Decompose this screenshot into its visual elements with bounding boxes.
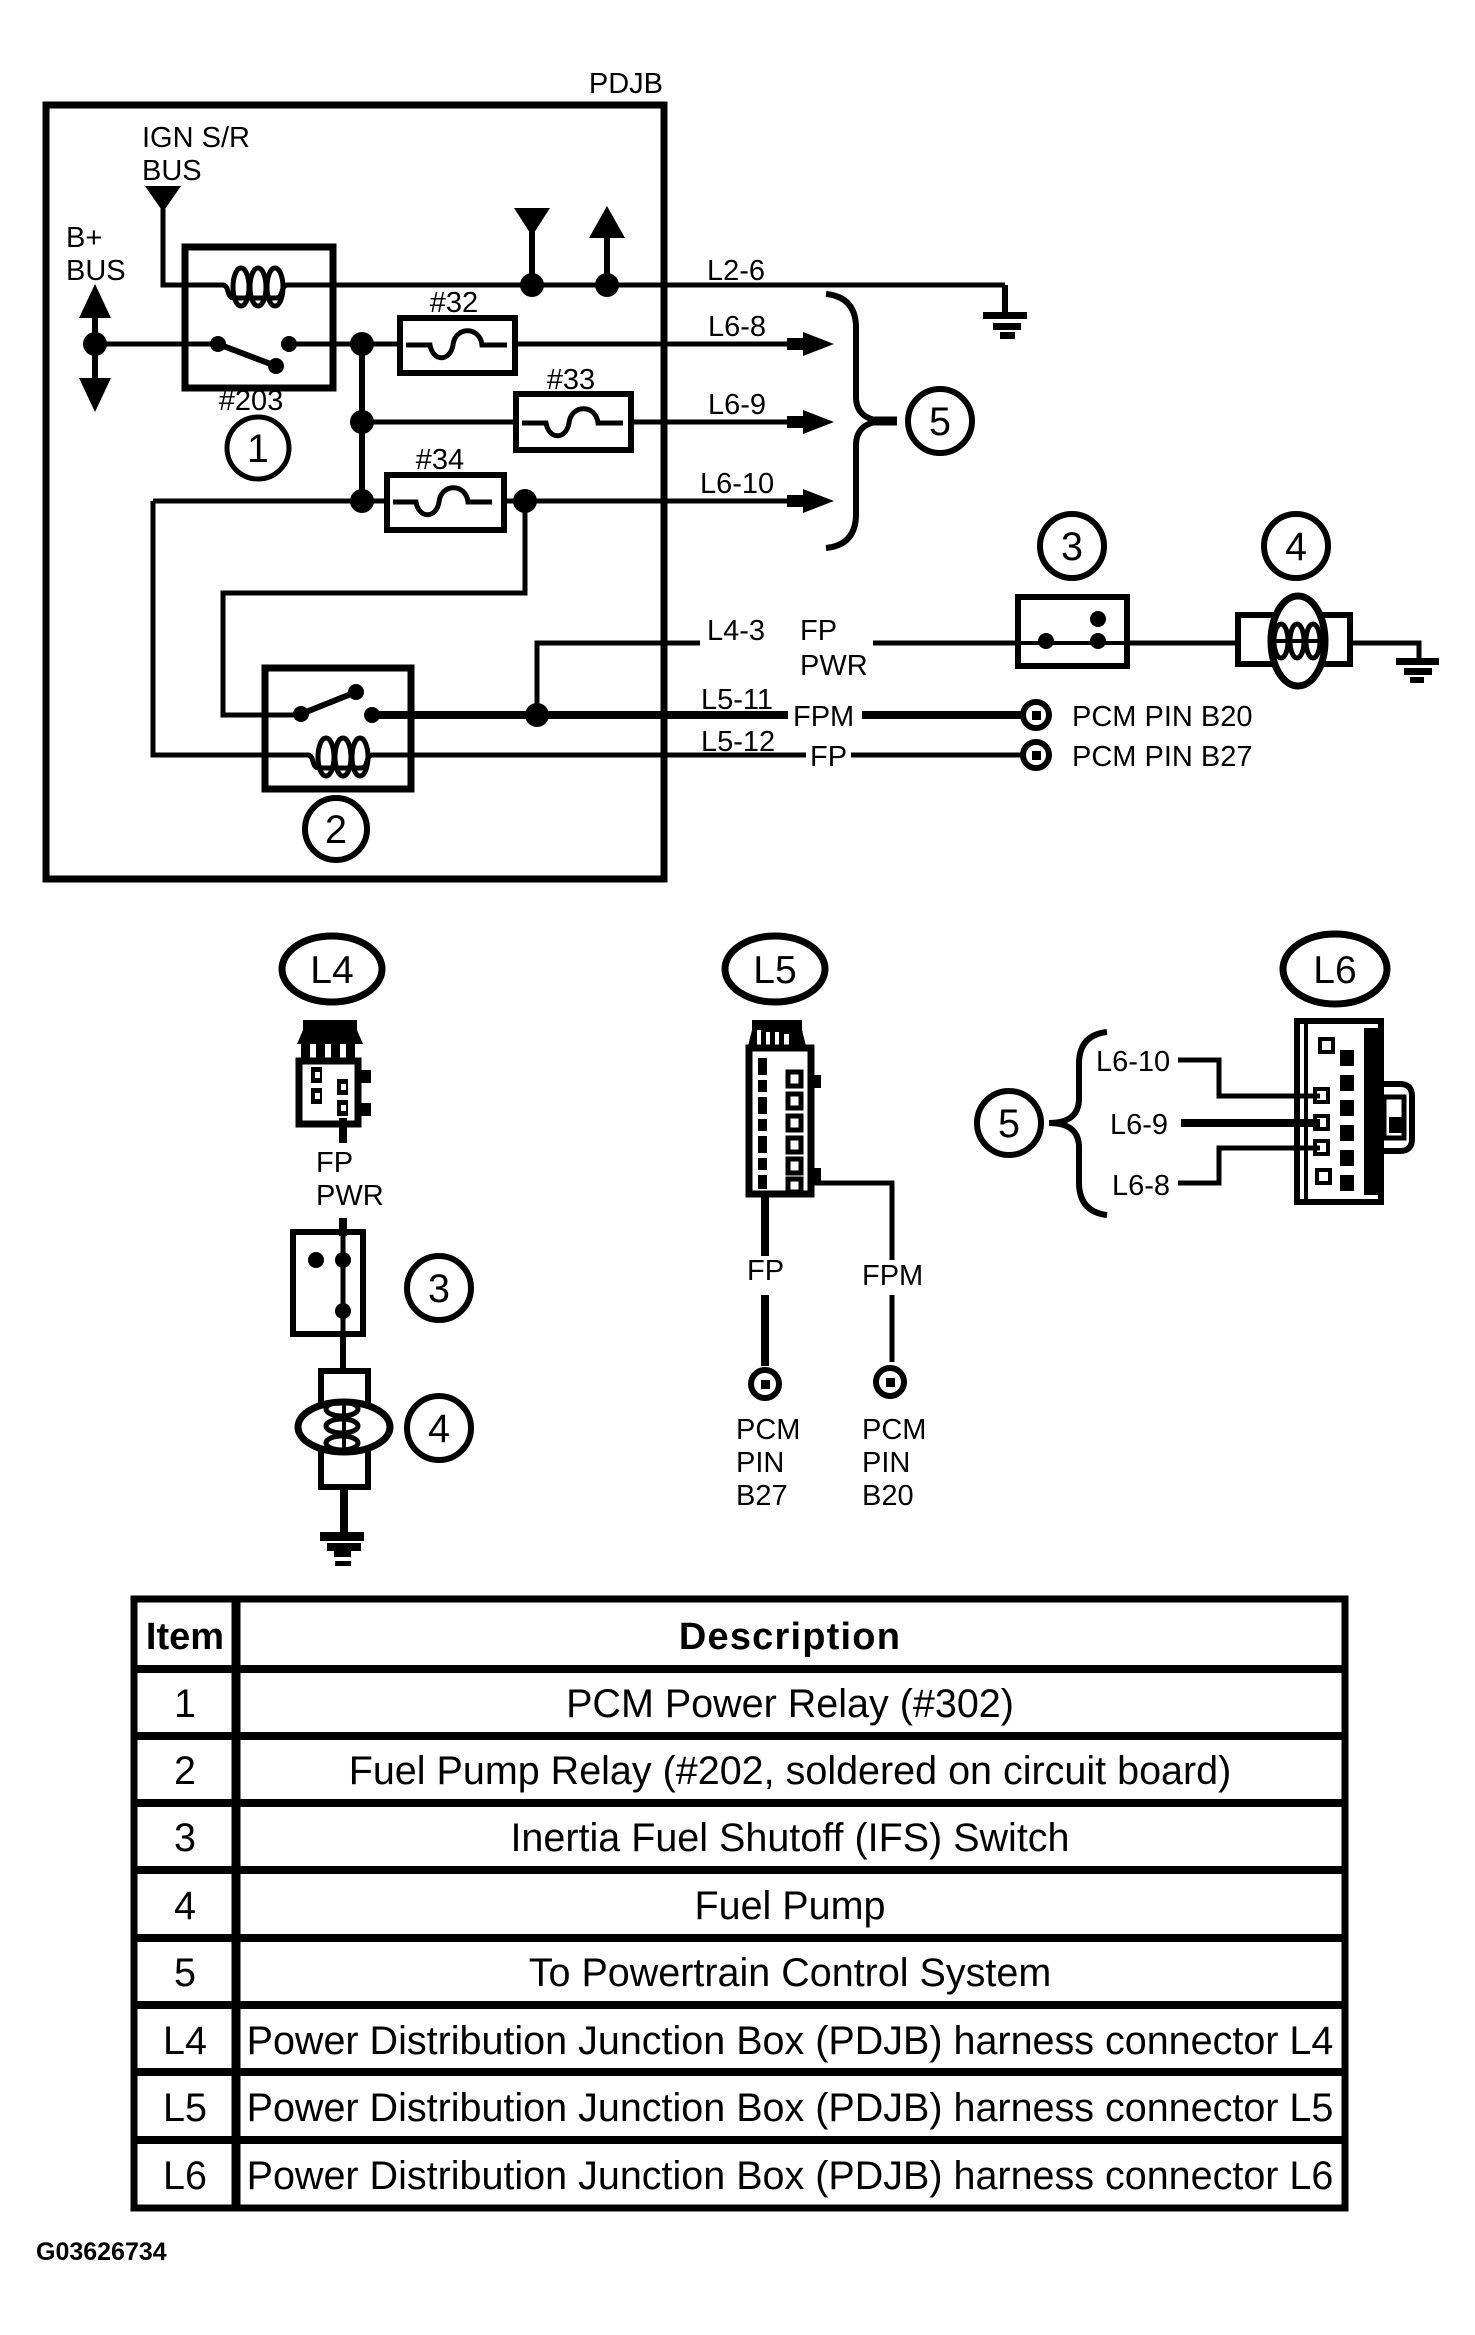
terminal to PCM B27 bbox=[1023, 742, 1049, 768]
wire to relay 2 coil bbox=[153, 501, 265, 755]
svg-text:L4: L4 bbox=[310, 949, 353, 992]
wire from L4 connector bbox=[339, 1118, 347, 1143]
svg-text:PDJB: PDJB bbox=[589, 68, 663, 100]
arrow L6-9 bbox=[787, 410, 834, 434]
wire FP from L5 bbox=[761, 1194, 769, 1256]
wire FPM L5-11 bbox=[372, 711, 788, 719]
wire L6-8 bbox=[333, 342, 400, 347]
svg-text:#32: #32 bbox=[430, 287, 478, 319]
circle item 5 bbox=[874, 417, 897, 426]
IFS switch (item 3) box top bbox=[1018, 597, 1127, 666]
wire FP PWR to IFS bbox=[873, 641, 1018, 646]
svg-text:PWR: PWR bbox=[316, 1180, 384, 1212]
junction vertical from relay output bbox=[359, 344, 365, 501]
wire FPM from L5 bbox=[809, 1183, 892, 1260]
ground G1 bbox=[983, 312, 1027, 339]
svg-text:BUS: BUS bbox=[142, 155, 202, 187]
svg-text:Fuel Pump Relay (#202, soldere: Fuel Pump Relay (#202, soldered on circu… bbox=[349, 1749, 1232, 1793]
svg-text:PCM: PCM bbox=[736, 1414, 800, 1446]
relay 2 switch bbox=[293, 684, 411, 723]
wire FP L5-12 bbox=[411, 753, 806, 758]
connector L6 oval label bbox=[1283, 934, 1387, 1004]
svg-text:#203: #203 bbox=[219, 385, 284, 417]
fuel pump (item 4) top bbox=[1238, 596, 1350, 686]
svg-text:L2-6: L2-6 bbox=[707, 255, 765, 287]
svg-text:Description: Description bbox=[679, 1616, 901, 1658]
wire L6-9 to connector bbox=[1181, 1119, 1320, 1127]
svg-text:L6: L6 bbox=[163, 2154, 207, 2198]
wire IFS to pump (bottom) bbox=[340, 1334, 346, 1372]
svg-text:PCM: PCM bbox=[862, 1414, 926, 1446]
svg-text:4: 4 bbox=[1285, 525, 1307, 569]
svg-text:L4-3: L4-3 bbox=[707, 615, 765, 647]
svg-text:Inertia Fuel Shutoff (IFS) Swi: Inertia Fuel Shutoff (IFS) Switch bbox=[510, 1816, 1069, 1860]
junction B+ bbox=[83, 332, 107, 356]
wire L4-3 FP PWR bbox=[537, 643, 700, 715]
svg-text:L6-9: L6-9 bbox=[708, 389, 766, 421]
svg-text:FPM: FPM bbox=[862, 1260, 923, 1292]
svg-text:5: 5 bbox=[998, 1102, 1020, 1146]
wire L6-10 bbox=[153, 499, 387, 504]
brace (bottom) bbox=[1049, 1032, 1107, 1215]
circle item 5 (bottom) bbox=[977, 1091, 1041, 1155]
svg-text:L5-11: L5-11 bbox=[701, 684, 773, 716]
svg-text:4: 4 bbox=[428, 1407, 450, 1451]
terminal to PCM B20 bbox=[1023, 702, 1049, 728]
svg-text:L6-10: L6-10 bbox=[700, 468, 774, 500]
svg-text:L6-8: L6-8 bbox=[708, 311, 766, 343]
connector L4 oval label bbox=[282, 936, 382, 1002]
circle item 1 bbox=[227, 417, 289, 479]
svg-text:2: 2 bbox=[325, 808, 347, 852]
svg-text:Power Distribution Junction Bo: Power Distribution Junction Box (PDJB) h… bbox=[247, 2154, 1334, 2198]
relay U2 fuel pump relay box bbox=[265, 668, 411, 789]
arrow L6-8 bbox=[787, 332, 834, 356]
relay #203 coil bbox=[185, 268, 333, 306]
svg-text:3: 3 bbox=[428, 1267, 450, 1311]
wire to ground bbox=[1002, 285, 1008, 313]
svg-text:Power Distribution Junction Bo: Power Distribution Junction Box (PDJB) h… bbox=[247, 2086, 1334, 2130]
wire to IFS (bottom) bbox=[339, 1218, 347, 1236]
svg-text:Power Distribution Junction Bo: Power Distribution Junction Box (PDJB) h… bbox=[247, 2019, 1334, 2063]
svg-text:IGN S/R: IGN S/R bbox=[142, 122, 250, 154]
fuse #32 bbox=[400, 318, 515, 373]
circle item 3 (top) bbox=[1040, 514, 1104, 578]
table frame bbox=[134, 1599, 1345, 2208]
relay #203 switch bbox=[210, 336, 333, 374]
svg-text:L5: L5 bbox=[163, 2086, 207, 2130]
svg-text:BUS: BUS bbox=[66, 255, 126, 287]
IFS switch (item 3) box bottom bbox=[293, 1232, 363, 1334]
B+ bus double arrow bbox=[79, 284, 111, 318]
svg-text:L6-8: L6-8 bbox=[1112, 1170, 1170, 1202]
svg-text:1: 1 bbox=[247, 427, 269, 471]
wire B+ to relay switch bbox=[95, 342, 218, 347]
svg-text:4: 4 bbox=[174, 1884, 196, 1928]
svg-text:Fuel Pump: Fuel Pump bbox=[694, 1884, 885, 1928]
ground G3 bbox=[320, 1532, 364, 1566]
svg-text:L6-9: L6-9 bbox=[1110, 1109, 1168, 1141]
svg-text:Item: Item bbox=[146, 1616, 224, 1658]
fuse #33 bbox=[516, 394, 631, 450]
svg-text:PIN: PIN bbox=[862, 1447, 910, 1479]
svg-text:L5-12: L5-12 bbox=[701, 726, 775, 758]
wire IGN to relay coil bbox=[163, 209, 185, 285]
svg-text:L6-10: L6-10 bbox=[1096, 1046, 1170, 1078]
wire pump to ground bbox=[1350, 643, 1419, 659]
svg-text:5: 5 bbox=[174, 1951, 196, 1995]
svg-text:FP: FP bbox=[316, 1147, 353, 1179]
svg-text:PCM PIN B20: PCM PIN B20 bbox=[1072, 701, 1253, 733]
svg-text:PCM PIN B27: PCM PIN B27 bbox=[1072, 741, 1253, 773]
svg-text:G03626734: G03626734 bbox=[36, 2238, 167, 2266]
circle item 4 (bottom) bbox=[407, 1396, 471, 1460]
wire L6-8 to connector bbox=[1178, 1148, 1320, 1183]
ground G2 bbox=[1396, 658, 1439, 683]
svg-text:To Powertrain Control System: To Powertrain Control System bbox=[529, 1951, 1051, 1995]
svg-text:5: 5 bbox=[929, 400, 951, 444]
wire IFS to fuel pump bbox=[1127, 641, 1238, 646]
svg-text:FP: FP bbox=[747, 1255, 784, 1287]
circle item 2 bbox=[305, 798, 367, 860]
svg-text:FP: FP bbox=[800, 615, 837, 647]
wire L2-6 (relay coil to ground) bbox=[333, 283, 1005, 288]
svg-text:1: 1 bbox=[174, 1682, 196, 1726]
bus up-arrow at L2-6 bbox=[589, 206, 625, 238]
circle item 4 (top) bbox=[1264, 514, 1328, 578]
circle item 3 (bottom) bbox=[407, 1256, 471, 1320]
svg-text:#34: #34 bbox=[416, 444, 464, 476]
junction after fuse #34 bbox=[513, 489, 537, 513]
svg-text:PIN: PIN bbox=[736, 1447, 784, 1479]
wire from fuse #34 to relay 2 switch bbox=[223, 501, 525, 715]
svg-text:L4: L4 bbox=[163, 2019, 207, 2063]
svg-text:B27: B27 bbox=[736, 1480, 788, 1512]
svg-text:FP: FP bbox=[810, 741, 847, 773]
connector L6 symbol bbox=[1297, 1021, 1412, 1202]
fuse #34 bbox=[387, 475, 504, 530]
svg-text:2: 2 bbox=[174, 1749, 196, 1793]
wire pump to ground (bottom) bbox=[340, 1487, 348, 1534]
bus down-arrow at L2-6 bbox=[514, 208, 550, 236]
svg-text:3: 3 bbox=[174, 1816, 196, 1860]
connector L4 symbol bbox=[297, 1020, 371, 1124]
svg-text:B20: B20 bbox=[862, 1480, 914, 1512]
svg-text:FPM: FPM bbox=[793, 701, 854, 733]
IGN S/R bus arrow bbox=[145, 186, 181, 212]
svg-text:L5: L5 bbox=[753, 949, 796, 992]
svg-text:PCM Power Relay (#302): PCM Power Relay (#302) bbox=[566, 1682, 1014, 1726]
brace to item 5 bbox=[826, 294, 886, 548]
connector L5 symbol bbox=[748, 1020, 821, 1194]
relay U1 #203 box bbox=[185, 247, 333, 388]
svg-text:L6: L6 bbox=[1313, 949, 1356, 992]
fuel pump (item 4) bottom bbox=[298, 1371, 390, 1487]
wire L6-10 to connector bbox=[1178, 1060, 1320, 1096]
PDJB box bbox=[46, 105, 664, 879]
connector L5 oval label bbox=[725, 936, 825, 1002]
arrow L6-10 bbox=[787, 489, 834, 513]
terminal PCM B20 (bottom) bbox=[876, 1368, 904, 1396]
terminal PCM B27 (bottom) bbox=[751, 1370, 779, 1398]
svg-text:B+: B+ bbox=[66, 222, 102, 254]
svg-text:#33: #33 bbox=[547, 364, 595, 396]
relay 2 coil bbox=[265, 738, 411, 776]
wire L6-9 bbox=[362, 420, 516, 425]
svg-text:3: 3 bbox=[1061, 525, 1083, 569]
svg-text:PWR: PWR bbox=[800, 650, 868, 682]
